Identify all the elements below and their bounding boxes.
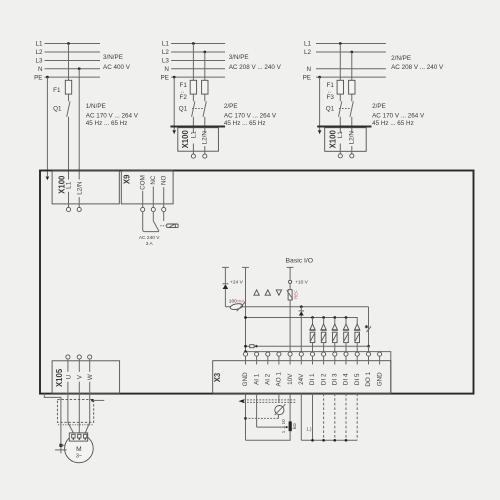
wire PE into device block1 <box>46 77 48 176</box>
terminal X100 block2 <box>178 128 219 152</box>
svg-text:F2: F2 <box>180 94 188 101</box>
load symbol on DO1 line <box>250 345 254 348</box>
svg-text:PE: PE <box>160 74 168 81</box>
mains line L2 block 2 <box>171 51 225 53</box>
terminal X100 drive <box>52 171 119 204</box>
relay actuator link <box>160 225 166 227</box>
svg-text:F1: F1 <box>53 87 61 94</box>
mains line L1 block 3 <box>316 43 386 45</box>
potentiometer track 1...10 kOhm <box>289 421 292 431</box>
pin AI 2 X3 <box>266 352 270 356</box>
pin W X105 <box>88 355 92 359</box>
wire COM to relay contact <box>143 212 159 232</box>
wire PE block3 <box>319 77 321 130</box>
svg-text:AO 1: AO 1 <box>276 372 283 387</box>
DI switch bus external <box>301 439 357 441</box>
svg-text:2/PE: 2/PE <box>224 103 238 110</box>
svg-text:DI 3: DI 3 <box>332 373 339 385</box>
wire AI1 below <box>256 394 258 428</box>
digital input stage DI3 <box>334 318 336 325</box>
wire AO1 stub <box>278 394 280 403</box>
wire L1 to fuse F1 block3 <box>339 44 341 81</box>
node +10V <box>289 280 292 283</box>
mains line L1 block 2 <box>171 43 225 45</box>
svg-text:AC 170 V ... 264 V: AC 170 V ... 264 V <box>224 112 277 119</box>
svg-text:GND: GND <box>242 372 249 386</box>
svg-text:Q1: Q1 <box>53 106 62 113</box>
DI common bus <box>246 318 358 325</box>
svg-text:1/N/PE: 1/N/PE <box>86 103 106 110</box>
wire N to X100 L2/N block1 <box>78 69 80 180</box>
node PE tap block 1 <box>46 76 49 79</box>
amplifier AI2 <box>265 290 270 295</box>
node L2 tap block 2 <box>203 51 206 54</box>
potentiometer knob <box>275 406 284 415</box>
node DI3 bus tap <box>333 316 336 319</box>
mains line PE block 1 <box>45 76 101 78</box>
svg-text:2/N/PE: 2/N/PE <box>391 55 411 62</box>
svg-text:GND: GND <box>376 372 383 386</box>
svg-text:AC 170 V ... 264 V: AC 170 V ... 264 V <box>86 112 139 119</box>
svg-text:45 Hz ... 65 Hz: 45 Hz ... 65 Hz <box>224 120 266 127</box>
svg-text:3/N/PE: 3/N/PE <box>103 54 123 61</box>
pin GND X3 <box>378 352 382 356</box>
mains line PE block 2 <box>171 76 225 78</box>
wire 24V below <box>300 394 302 441</box>
pin L2/N X100 <box>78 197 80 207</box>
node DI1 jumper <box>311 439 314 442</box>
pin V X105 <box>77 355 81 359</box>
svg-text:Q1: Q1 <box>179 105 188 112</box>
svg-text:DI 2: DI 2 <box>320 373 327 385</box>
pin COM <box>142 191 144 208</box>
svg-text:L2/N: L2/N <box>349 131 356 145</box>
pin GND X3 <box>243 352 247 356</box>
wire NC stub <box>152 212 154 221</box>
svg-text:W: W <box>87 374 94 380</box>
svg-text:L1: L1 <box>162 41 170 48</box>
svg-text:45 Hz ... 65 Hz: 45 Hz ... 65 Hz <box>372 120 414 127</box>
node N tap block 1 <box>78 67 81 70</box>
node L1 tap block 2 <box>192 42 195 45</box>
mains line L3 block 1 <box>45 60 101 62</box>
pin NC <box>152 187 154 208</box>
pin 10V X3 <box>288 352 292 356</box>
svg-text:M: M <box>76 446 82 453</box>
svg-text:+10 V: +10 V <box>295 280 308 286</box>
relay changeover contact <box>153 221 159 231</box>
terminal X9 <box>121 171 173 204</box>
digital output DO1 switch <box>368 307 370 347</box>
node DI2 jumper <box>322 439 325 442</box>
svg-text:X100: X100 <box>181 130 190 149</box>
svg-text:45 Hz ... 65 Hz: 45 Hz ... 65 Hz <box>86 120 128 127</box>
pin DI 3 X3 <box>333 352 337 356</box>
pin AO 1 X3 <box>277 352 281 356</box>
svg-text:L1: L1 <box>337 131 344 139</box>
digital input stage DI1 <box>312 318 314 325</box>
svg-text:AI 1: AI 1 <box>253 373 260 385</box>
svg-text:Q1: Q1 <box>326 105 335 112</box>
svg-text:mA: mA <box>237 299 245 305</box>
node L1 tap block 3 <box>339 42 342 45</box>
mains line N block 1 <box>45 68 101 70</box>
svg-text:L3: L3 <box>162 58 170 65</box>
svg-text:L1: L1 <box>66 181 73 189</box>
svg-text:PE: PE <box>34 74 42 81</box>
terminal 10V output top <box>287 266 294 268</box>
pin L2/N block3 <box>351 146 353 154</box>
node shield bond <box>91 399 94 402</box>
wire NO stub <box>163 212 165 221</box>
diode 24V terminal <box>300 307 302 311</box>
svg-text:L1: L1 <box>304 41 312 48</box>
svg-text:L2/N: L2/N <box>76 181 83 195</box>
svg-text:REF: REF <box>293 290 298 299</box>
wires fuses to switch Q1 block3 <box>339 94 341 101</box>
switch Q1 block3 (2-pole) <box>339 101 342 117</box>
svg-text:L1: L1 <box>190 131 197 139</box>
svg-text:DI 4: DI 4 <box>343 373 350 385</box>
node DI4 jumper <box>345 439 348 442</box>
svg-text:kΩ: kΩ <box>292 423 297 429</box>
svg-text:AC 208 V ... 240 V: AC 208 V ... 240 V <box>229 64 282 71</box>
wire L2 to fuse F2 block2 <box>204 52 206 80</box>
pin DI 2 X3 <box>322 352 326 356</box>
drive device outline <box>40 171 474 394</box>
pin U X105 <box>66 355 70 359</box>
wire W to motor <box>89 382 91 423</box>
fuse F2 block2 <box>202 80 208 94</box>
X3 connector rail <box>246 352 391 394</box>
device edge bar block3 <box>317 125 371 127</box>
svg-text:1 ... 10: 1 ... 10 <box>281 419 286 433</box>
node PE tap block 2 <box>173 76 176 79</box>
wire 24V to terminal <box>300 316 302 353</box>
cable shield <box>57 399 93 422</box>
wire DI2 external <box>323 394 325 441</box>
svg-text:AC 240 V: AC 240 V <box>139 235 160 241</box>
pin L1 X100 <box>68 192 70 208</box>
pin AI 1 X3 <box>255 352 259 356</box>
mains line L1 block 1 <box>45 43 101 45</box>
node DO1 <box>367 345 370 348</box>
svg-text:L2: L2 <box>162 49 170 56</box>
wire Q1 to X100 L1 block1 <box>68 117 70 180</box>
wire fuse to switch Q1 block1 <box>68 94 70 101</box>
svg-text:DI 5: DI 5 <box>354 373 361 385</box>
digital input stage DI2 <box>323 318 325 325</box>
relay actuator <box>167 224 178 228</box>
svg-text:1.): 1.) <box>306 427 312 432</box>
wire DI3 external <box>334 394 336 441</box>
fuse F1 block1 <box>65 80 71 94</box>
node L1 tap block 1 <box>67 42 70 45</box>
wire L1 to fuse F1 block1 <box>68 44 70 81</box>
svg-text:L2/N: L2/N <box>202 131 209 145</box>
pin DO 1 X3 <box>366 352 370 356</box>
wires fuses to switch Q1 block2 <box>192 94 194 101</box>
svg-text:DO 1: DO 1 <box>365 371 372 386</box>
node 24V bus tap <box>300 305 303 308</box>
pin L1 block2 <box>192 144 194 155</box>
svg-text:DI 1: DI 1 <box>309 373 316 385</box>
svg-text:COM: COM <box>139 175 146 190</box>
svg-text:3 A: 3 A <box>146 241 154 247</box>
analog output cable arrow <box>244 399 296 401</box>
svg-text:2/PE: 2/PE <box>372 103 386 110</box>
diode 24V input <box>222 283 228 285</box>
digital input stage DI4 <box>345 318 347 325</box>
terminal X100 block3 <box>325 128 367 152</box>
mains line L2 block 3 <box>316 51 386 53</box>
svg-text:10V: 10V <box>287 373 294 385</box>
wire L1 to fuse F1 block2 <box>192 44 194 81</box>
svg-text:N: N <box>306 66 311 73</box>
terminal external +24V <box>222 266 229 268</box>
wire +24V to fuse <box>224 289 226 307</box>
svg-text:AC 208 V ... 240 V: AC 208 V ... 240 V <box>391 64 444 71</box>
svg-text:L2: L2 <box>35 49 43 56</box>
terminal X3 <box>213 361 391 394</box>
wires Q1 to X100 block3 <box>339 117 341 133</box>
PE wire to motor <box>44 394 61 454</box>
wire DI4 external <box>345 394 347 441</box>
svg-text:X3: X3 <box>213 372 222 382</box>
fuse 100 mA self-resetting <box>230 303 243 311</box>
terminal X105 <box>52 361 120 394</box>
switch Q1 block2 (2-pole) <box>192 101 195 117</box>
node PE tap block 3 <box>318 76 321 79</box>
node DI4 bus tap <box>345 316 348 319</box>
mains line N block 2 <box>171 68 225 70</box>
amplifier AI1 <box>254 290 259 295</box>
node GND potentiometer link <box>244 417 247 420</box>
fuse F1 block3 <box>337 80 343 94</box>
svg-text:PE: PE <box>303 74 311 81</box>
svg-text:Basic I/O: Basic I/O <box>286 257 314 264</box>
wire 10V to terminal <box>289 300 291 352</box>
wire L2 to fuse F3 block3 <box>351 52 353 80</box>
mains line PE block 3 <box>316 76 386 78</box>
svg-text:X9: X9 <box>123 174 132 184</box>
svg-text:AI 2: AI 2 <box>265 373 272 385</box>
node DI1 bus tap <box>311 316 314 319</box>
svg-text:NC: NC <box>150 175 157 185</box>
fuse F1 block2 <box>190 80 196 94</box>
pin NO <box>163 187 165 207</box>
svg-text:X105: X105 <box>55 368 64 387</box>
node DI2 bus tap <box>322 316 325 319</box>
mains line L2 block 1 <box>45 51 101 53</box>
svg-text:AC 400 V: AC 400 V <box>103 64 131 71</box>
svg-text:N: N <box>38 66 43 73</box>
pin DI 1 X3 <box>310 352 314 356</box>
ground PE motor <box>59 444 62 447</box>
terminal external GND <box>242 266 249 268</box>
digital input stage DI5 <box>355 324 360 330</box>
svg-text:3/N/PE: 3/N/PE <box>229 54 249 61</box>
node DI3 jumper <box>333 439 336 442</box>
wires Q1 to X100 block2 <box>192 117 194 133</box>
motor terminal box <box>69 433 87 441</box>
svg-text:U: U <box>65 374 72 379</box>
svg-text:X100: X100 <box>328 130 337 149</box>
svg-text:N: N <box>164 66 169 73</box>
svg-text:L3: L3 <box>35 58 43 65</box>
node L2 tap block 3 <box>350 51 353 54</box>
svg-text:L1: L1 <box>35 41 43 48</box>
mains line N block 3 <box>316 68 386 70</box>
pin L1 block3 <box>339 144 341 154</box>
pin DI 4 X3 <box>344 352 348 356</box>
wire GND rail <box>245 267 247 352</box>
wire U to motor <box>67 382 69 423</box>
svg-text:100: 100 <box>229 299 237 305</box>
wire DI1 external <box>312 394 314 441</box>
device edge bar block2 <box>170 125 225 127</box>
pin 24V X3 <box>299 352 303 356</box>
svg-text:+24 V: +24 V <box>230 279 243 285</box>
motor M 3~ <box>65 434 94 463</box>
fuse F3 block3 <box>349 80 355 94</box>
wire GND below <box>245 394 247 441</box>
amplifier AO1 <box>276 290 281 295</box>
wiper AI1 <box>257 426 287 428</box>
switch Q1 block1 <box>67 101 70 117</box>
wire PE block2 <box>173 77 175 130</box>
pin L2/N block2 <box>204 146 206 154</box>
svg-text:24V: 24V <box>298 373 305 385</box>
wire DI5 external <box>356 394 358 441</box>
wire pot bottom to GND <box>246 431 291 440</box>
pin DI 5 X3 <box>355 352 359 356</box>
wire 10V below <box>289 394 291 422</box>
svg-text:F3: F3 <box>327 94 335 101</box>
mains line L3 block 2 <box>171 60 225 62</box>
DO1 load line to GND <box>246 345 369 347</box>
wire V to motor <box>78 382 80 433</box>
reference voltage source REF <box>289 284 291 290</box>
svg-text:AC 170 V ... 264 V: AC 170 V ... 264 V <box>372 112 425 119</box>
svg-text:L2: L2 <box>304 49 312 56</box>
svg-text:3~: 3~ <box>76 454 82 460</box>
svg-text:NO: NO <box>161 175 168 185</box>
internal 24V bus <box>225 306 368 308</box>
